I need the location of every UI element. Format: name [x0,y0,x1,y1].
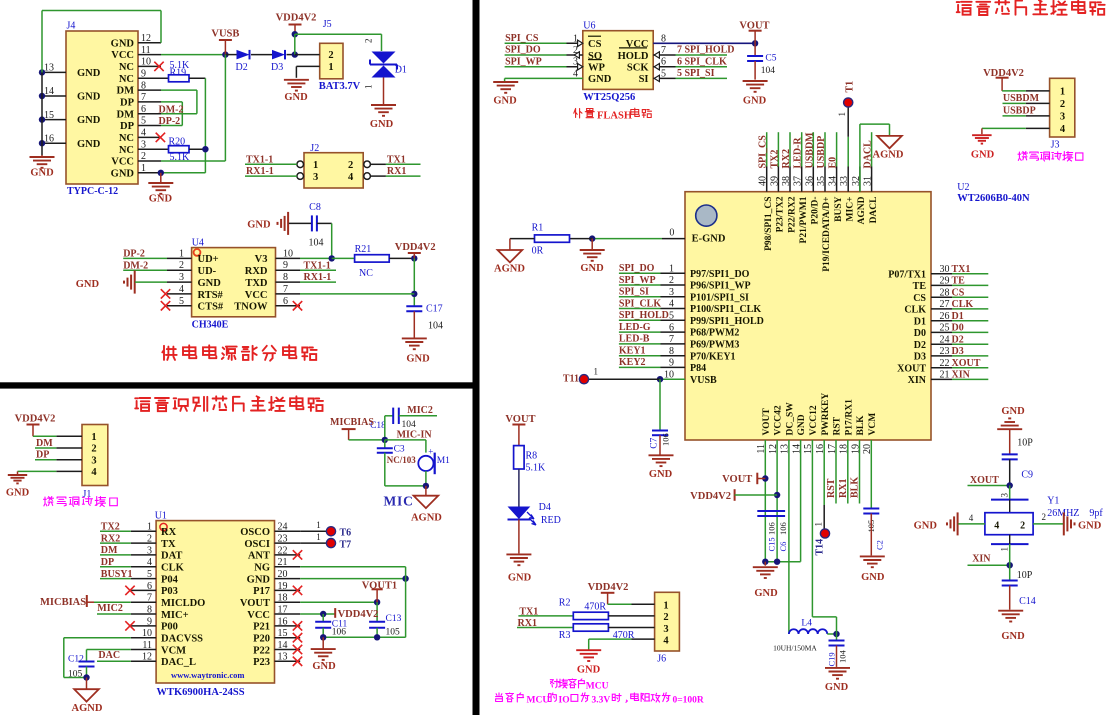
svg-text:1: 1 [364,85,374,90]
svg-text:C9: C9 [1021,469,1033,480]
svg-text:2: 2 [348,160,353,171]
svg-text:3: 3 [669,287,674,298]
svg-text:2: 2 [1060,99,1065,110]
svg-text:XIN: XIN [952,370,971,381]
svg-text:BLK: BLK [856,415,866,436]
svg-text:MIC-IN: MIC-IN [397,430,433,441]
svg-text:5: 5 [141,116,146,127]
svg-text:3: 3 [1000,493,1010,498]
svg-text:NC: NC [119,145,134,156]
svg-text:8: 8 [283,272,288,283]
svg-text:VCC42: VCC42 [774,405,784,435]
svg-text:AGND: AGND [411,513,442,524]
svg-text:MIC+: MIC+ [161,610,189,621]
svg-text:DM: DM [117,86,135,97]
svg-text:1: 1 [316,520,321,530]
svg-text:GND: GND [577,665,601,676]
svg-text:P23: P23 [253,657,270,668]
svg-text:RTS#: RTS# [198,290,224,301]
svg-text:KEY1: KEY1 [619,346,646,357]
svg-text:J3: J3 [1051,140,1060,151]
svg-text:MCU: MCU [527,696,550,706]
svg-text:2: 2 [141,151,146,162]
svg-text:P07/TX1: P07/TX1 [888,269,926,280]
svg-text:4: 4 [1060,124,1066,135]
svg-text:D0: D0 [952,323,964,334]
svg-text:R1: R1 [532,223,544,234]
svg-text:WTK6900HA-24SS: WTK6900HA-24SS [157,687,245,698]
svg-text:15: 15 [278,628,288,639]
svg-text:5: 5 [669,311,674,322]
svg-text:SPI_DO: SPI_DO [619,263,655,274]
svg-text:TX1: TX1 [952,264,971,275]
svg-text:10UH/150MA: 10UH/150MA [773,644,817,653]
svg-text:CS: CS [952,287,965,298]
svg-text:11: 11 [142,640,152,651]
svg-text:USBDM: USBDM [804,132,815,169]
svg-text:2: 2 [328,50,333,61]
svg-text:FLASH: FLASH [597,111,632,122]
svg-text:CTS#: CTS# [198,302,224,313]
svg-text:MIC2: MIC2 [97,603,123,614]
svg-text:XOUT: XOUT [897,363,926,374]
svg-text:VCC: VCC [247,610,270,621]
svg-text:P68/PWM2: P68/PWM2 [690,328,739,339]
svg-text:14: 14 [44,86,54,97]
svg-text:36: 36 [804,176,815,186]
svg-text:WT2606B0-40N: WT2606B0-40N [957,193,1030,204]
svg-text:NC: NC [119,74,134,85]
svg-text:106: 106 [778,522,788,535]
svg-text:105: 105 [386,628,401,638]
svg-text:13: 13 [44,63,54,74]
svg-text:MICLDO: MICLDO [161,598,205,609]
svg-text:GND: GND [493,96,517,107]
svg-text:RED: RED [541,515,561,526]
svg-text:GND: GND [914,520,938,531]
svg-text:SPI_CLK: SPI_CLK [619,298,661,309]
svg-text:MCU: MCU [586,682,609,692]
svg-text:MIC2: MIC2 [407,405,433,416]
svg-text:28: 28 [940,287,950,298]
svg-text:Y1: Y1 [1047,496,1059,507]
svg-text:DAC_L: DAC_L [161,657,196,668]
svg-text:C15: C15 [766,537,776,551]
svg-text:XOUT: XOUT [952,358,981,369]
svg-text:USBDP: USBDP [816,136,827,169]
svg-text:4: 4 [969,513,974,523]
svg-text:CH340E: CH340E [192,320,229,331]
svg-text:1: 1 [1000,547,1010,552]
svg-text:6: 6 [147,581,152,592]
svg-text:GND: GND [77,92,101,103]
svg-text:D1: D1 [952,311,964,322]
svg-text:1: 1 [91,432,96,443]
svg-text:V3: V3 [255,254,268,265]
svg-text:10: 10 [142,628,152,639]
svg-text:39: 39 [769,176,780,186]
svg-text:CLK: CLK [161,563,185,574]
svg-text:C19: C19 [826,652,836,666]
svg-text:DP-2: DP-2 [159,116,181,127]
svg-text:T6: T6 [340,528,352,539]
svg-text:SPI_CS: SPI_CS [758,135,769,169]
svg-text:AGND: AGND [72,703,103,714]
svg-text:UD+: UD+ [198,254,219,265]
svg-text:CLK: CLK [952,299,974,310]
svg-text:U1: U1 [155,511,167,522]
svg-text:NC: NC [119,62,134,73]
svg-text:2: 2 [364,39,374,44]
svg-text:VCC: VCC [111,157,134,168]
svg-text:12: 12 [142,652,152,663]
svg-text:2: 2 [669,275,674,286]
svg-text:13: 13 [278,652,288,663]
svg-text:GND: GND [825,682,849,693]
svg-text:NC/103: NC/103 [387,455,416,465]
svg-text:4: 4 [669,299,674,310]
svg-text:106: 106 [332,628,347,638]
svg-text:104: 104 [402,420,417,430]
svg-text:10P: 10P [1017,570,1033,581]
svg-text:VDD4V2: VDD4V2 [276,13,317,24]
svg-text:GND: GND [797,414,807,435]
svg-text:14: 14 [278,640,288,651]
svg-text:1: 1 [141,163,146,174]
svg-text:6: 6 [283,296,288,307]
svg-text:J2: J2 [310,143,319,154]
svg-text:P101/SPI1_SI: P101/SPI1_SI [690,292,749,303]
svg-text:4: 4 [994,521,999,532]
svg-text:20: 20 [278,569,288,580]
svg-text:UD-: UD- [198,266,217,277]
svg-text:105: 105 [68,670,83,680]
svg-text:M1: M1 [437,456,450,466]
svg-text:BAT3.7V: BAT3.7V [319,81,361,92]
svg-text:27: 27 [940,299,950,310]
svg-text:SPI_SI: SPI_SI [619,287,649,298]
svg-text:GND: GND [6,488,30,499]
svg-text:D3: D3 [914,352,926,363]
svg-text:GND: GND [861,572,885,583]
svg-text:L4: L4 [801,619,812,629]
svg-text:C7: C7 [650,437,660,448]
svg-text:VDD4V2: VDD4V2 [588,582,629,593]
svg-text:30: 30 [940,264,950,275]
svg-text:CS: CS [588,39,602,50]
svg-text:104: 104 [761,66,776,76]
svg-text:DAT: DAT [161,551,182,562]
svg-text:29: 29 [940,276,950,287]
svg-text:+: + [428,447,433,457]
svg-text:3: 3 [313,172,318,183]
svg-text:SPI_WP: SPI_WP [619,275,656,286]
svg-text:GND: GND [754,588,778,599]
svg-text:34: 34 [828,176,839,186]
svg-text:MICBIAS: MICBIAS [330,417,374,428]
svg-text:8: 8 [669,346,674,357]
svg-text:40: 40 [758,176,769,186]
svg-text:24: 24 [278,522,288,533]
svg-text:2: 2 [147,534,152,545]
svg-text:LED-G: LED-G [619,322,651,333]
svg-text:VOUT: VOUT [505,414,535,425]
svg-text:P69/PWM3: P69/PWM3 [690,340,739,351]
svg-text:P21/PWM1: P21/PWM1 [799,196,809,243]
svg-text:P17/RX1: P17/RX1 [844,399,854,436]
svg-text:E-GND: E-GND [692,234,726,245]
svg-text:AGND: AGND [873,150,904,161]
svg-text:GND: GND [370,119,394,130]
svg-text:0R: 0R [532,245,544,256]
svg-text:3.3V: 3.3V [592,696,611,706]
svg-text:T1: T1 [845,81,856,93]
svg-text:GND: GND [111,38,135,49]
svg-text:8: 8 [147,604,152,615]
svg-text:16: 16 [278,616,288,627]
svg-text:NC: NC [119,133,134,144]
svg-text:GND: GND [284,92,308,103]
svg-text:9: 9 [669,358,674,369]
svg-text:SPI_HOLD: SPI_HOLD [619,310,669,321]
svg-text:22: 22 [278,545,288,556]
svg-text:DP: DP [120,121,135,132]
svg-text:21: 21 [278,557,288,568]
svg-text:T7: T7 [340,539,352,550]
svg-text:AGND: AGND [857,196,867,224]
svg-text:3: 3 [663,624,668,635]
svg-text:PWRKEY: PWRKEY [821,393,831,436]
svg-text:GND: GND [247,220,271,231]
svg-text:470R: 470R [584,602,606,613]
svg-text:C6: C6 [778,542,788,552]
svg-text:12: 12 [141,33,151,44]
svg-text:26: 26 [940,311,950,322]
svg-text:0=100R: 0=100R [673,696,704,706]
svg-text:DC_SW: DC_SW [786,402,796,436]
svg-text:SPI_WP: SPI_WP [505,56,542,67]
svg-text:OSCO: OSCO [240,527,270,538]
svg-text:R3: R3 [559,630,571,641]
svg-text:2: 2 [1041,512,1046,522]
svg-text:VUSB: VUSB [211,29,239,40]
svg-text:J4: J4 [67,21,76,32]
svg-text:USBDP: USBDP [1003,106,1036,117]
svg-text:106: 106 [660,433,670,446]
svg-text:6 SPI_CLK: 6 SPI_CLK [677,56,727,67]
svg-text:7: 7 [283,284,288,295]
svg-text:RST: RST [833,416,843,435]
svg-text:7: 7 [669,334,674,345]
svg-text:D3: D3 [952,346,964,357]
svg-text:P23/TX2: P23/TX2 [776,196,786,232]
svg-text:35: 35 [816,176,827,186]
svg-text:1: 1 [1060,87,1065,98]
svg-text:TYPC-C-12: TYPC-C-12 [67,186,118,197]
svg-text:104: 104 [838,650,848,664]
svg-text:C3: C3 [394,445,405,455]
svg-text:GND: GND [588,74,612,85]
svg-text:D3: D3 [271,62,283,73]
svg-text:23: 23 [940,346,950,357]
svg-text:TE: TE [952,276,966,287]
svg-text:9: 9 [283,260,288,271]
svg-text:CS: CS [913,293,926,304]
svg-text:DP: DP [120,98,135,109]
svg-text:VOUT: VOUT [240,598,270,609]
svg-text:RXD: RXD [245,266,268,277]
svg-text:3: 3 [147,545,152,556]
svg-text:P100/SPI1_CLK: P100/SPI1_CLK [690,304,761,315]
svg-text:P96/SPI1_WP: P96/SPI1_WP [690,281,751,292]
svg-text:11: 11 [141,45,151,56]
svg-text:GND: GND [508,573,532,584]
svg-text:GND: GND [76,279,100,290]
svg-text:VCM: VCM [161,645,186,656]
svg-text:MIC+: MIC+ [846,197,856,222]
svg-text:31: 31 [863,176,874,186]
svg-text:TX: TX [161,539,176,550]
svg-text:VUSB: VUSB [690,375,717,386]
svg-text:XIN: XIN [908,375,927,386]
svg-text:2: 2 [91,444,96,455]
svg-text:SPI_DO: SPI_DO [505,45,541,56]
svg-text:P20/D-: P20/D- [811,197,821,225]
svg-text:P99/SPI1_HOLD: P99/SPI1_HOLD [690,316,764,327]
svg-text:D1: D1 [914,316,926,327]
svg-text:GND: GND [406,354,430,365]
svg-text:T14: T14 [815,539,826,556]
svg-text:3: 3 [91,455,96,466]
svg-text:4: 4 [147,557,152,568]
svg-text:BUSY: BUSY [834,196,844,221]
svg-text:GND: GND [77,68,101,79]
svg-text:www.waytronic.com: www.waytronic.com [171,670,245,680]
svg-text:D0: D0 [914,328,926,339]
svg-text:R19: R19 [170,67,187,78]
svg-text:C8: C8 [309,202,321,213]
svg-text:CLK: CLK [904,305,926,316]
svg-text:7 SPI_HOLD: 7 SPI_HOLD [677,45,735,56]
svg-text:R8: R8 [526,450,538,461]
svg-text:GND: GND [1001,631,1025,642]
svg-text:ANT: ANT [248,551,270,562]
svg-text:XOUT: XOUT [970,475,999,486]
svg-text:4: 4 [179,284,184,295]
svg-text:3: 3 [179,272,184,283]
svg-text:P70/KEY1: P70/KEY1 [690,351,736,362]
svg-text:5: 5 [147,569,152,580]
svg-text:T11: T11 [563,374,579,385]
svg-text:4: 4 [141,128,146,139]
svg-text:GND: GND [30,168,54,179]
svg-text:SPI_CS: SPI_CS [505,33,539,44]
svg-text:R2: R2 [559,598,571,609]
svg-text:3: 3 [1060,112,1065,123]
svg-text:15: 15 [44,110,54,121]
svg-text:25: 25 [940,323,950,334]
svg-text:D2: D2 [914,340,926,351]
svg-text:GND: GND [111,168,135,179]
svg-text:1: 1 [814,522,824,527]
svg-text:1: 1 [147,522,152,533]
svg-text:16: 16 [44,133,54,144]
svg-text:7: 7 [147,593,152,604]
svg-text:TXD: TXD [245,278,268,289]
svg-text:5: 5 [179,296,184,307]
svg-text:WT25Q256: WT25Q256 [583,92,635,103]
svg-text:5 SPI_SI: 5 SPI_SI [677,68,715,79]
svg-text:VDD4V2: VDD4V2 [395,242,436,253]
svg-text:19: 19 [278,581,288,592]
svg-text:1: 1 [316,532,321,542]
svg-text:GND: GND [971,150,995,161]
svg-text:HOLD: HOLD [618,51,649,62]
svg-text:1: 1 [669,263,674,274]
svg-text:6: 6 [669,322,674,333]
svg-text:VDD4V2: VDD4V2 [690,491,731,502]
svg-text:IO: IO [559,696,570,706]
svg-text:P19/ICEDATA/D+: P19/ICEDATA/D+ [822,197,832,272]
svg-text:GND: GND [198,278,222,289]
svg-text:18: 18 [278,593,288,604]
svg-text:P98/SPI1_CS: P98/SPI1_CS [764,197,774,251]
svg-text:1: 1 [179,248,184,259]
svg-text:C14: C14 [1019,596,1036,607]
svg-text:10: 10 [283,248,293,259]
svg-text:1: 1 [328,62,333,73]
svg-text:LED-B: LED-B [619,334,650,345]
svg-text:2: 2 [663,612,668,623]
svg-text:24: 24 [940,334,950,345]
svg-text:9pf: 9pf [1089,508,1103,519]
svg-text:C2: C2 [874,540,884,550]
svg-text:4: 4 [348,172,354,183]
svg-text:U2: U2 [957,182,969,193]
svg-text:4: 4 [663,635,669,646]
svg-text:GND: GND [1078,520,1102,531]
svg-text:SI: SI [639,74,649,85]
svg-text:P17: P17 [253,586,270,597]
svg-text:VDD4V2: VDD4V2 [15,414,56,425]
svg-text:GND: GND [312,661,336,672]
svg-text:P21: P21 [253,622,270,633]
svg-text:R21: R21 [355,244,372,255]
svg-text:D2: D2 [952,334,964,345]
svg-text:U4: U4 [192,238,204,249]
svg-text:9: 9 [147,616,152,627]
svg-text:GND: GND [649,469,673,480]
svg-text:VOUT: VOUT [762,408,772,436]
svg-text:DM: DM [117,109,135,120]
svg-text:D1: D1 [395,65,407,76]
svg-text:RX1: RX1 [838,479,849,498]
svg-text:8: 8 [141,80,146,91]
svg-text:106: 106 [766,522,776,535]
svg-text:WP: WP [588,63,606,74]
svg-text:NC: NC [359,268,373,279]
svg-text:38: 38 [781,176,792,186]
svg-text:NG: NG [254,563,270,574]
svg-text:1: 1 [313,160,318,171]
svg-text:P84: P84 [690,363,706,374]
svg-text:10: 10 [141,57,151,68]
svg-text:1: 1 [837,112,847,117]
svg-text:D4: D4 [539,502,551,513]
svg-text:VCC12: VCC12 [809,405,819,435]
svg-text:R20: R20 [169,137,186,148]
svg-text:GND: GND [743,96,767,107]
